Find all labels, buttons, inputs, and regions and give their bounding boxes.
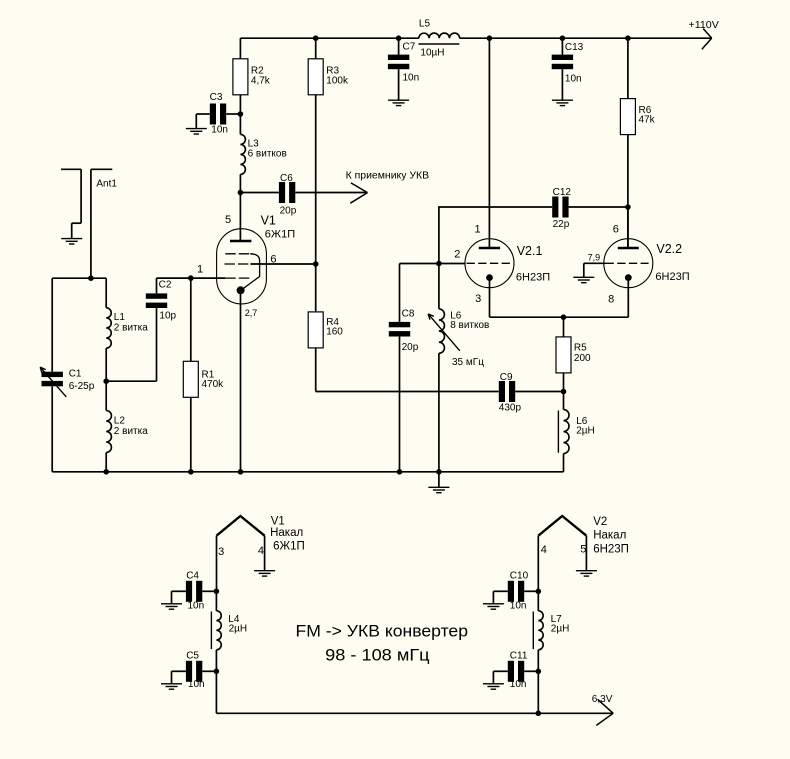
- wire C5 to heater bus: [215, 671, 217, 713]
- junction bus/R1: [188, 469, 194, 475]
- ground (heater V2): [576, 571, 597, 576]
- ground (C5): [161, 684, 182, 689]
- wire tank top: [52, 277, 106, 279]
- svg-text:К приемнику УКВ: К приемнику УКВ: [346, 171, 430, 182]
- svg-text:C9: C9: [500, 372, 513, 383]
- junction V2.1 anode/rail: [487, 35, 493, 41]
- resistor R1: [183, 278, 224, 472]
- node V2.2 grid ground (pins 7,9): [573, 252, 605, 282]
- wire antenna to tank: [90, 169, 92, 278]
- svg-text:10n: 10n: [188, 679, 205, 690]
- svg-text:6 витков: 6 витков: [248, 148, 287, 159]
- capacitor C1 (variable): [40, 278, 95, 472]
- svg-text:200: 200: [574, 353, 591, 364]
- svg-text:2,7: 2,7: [245, 308, 258, 318]
- svg-text:Накал: Накал: [593, 530, 626, 542]
- junction C6 tap: [238, 190, 244, 196]
- svg-text:L5: L5: [419, 18, 431, 29]
- heater V1 filament: [217, 516, 305, 558]
- wire V1 cathode to ground bus: [240, 290, 242, 472]
- svg-text:10n: 10n: [565, 74, 582, 85]
- svg-text:R5: R5: [574, 342, 587, 353]
- wire tap to C2: [106, 380, 156, 382]
- junction C11: [536, 669, 542, 675]
- inductor L3: [240, 134, 286, 174]
- junction bus/L2: [103, 469, 109, 475]
- junction antenna/tank top: [88, 275, 94, 281]
- svg-text:2: 2: [454, 249, 460, 261]
- resistor R3: [308, 38, 349, 264]
- capacitor C3: [196, 92, 240, 135]
- svg-text:1: 1: [197, 264, 203, 276]
- svg-text:C10: C10: [510, 570, 529, 581]
- junction C12/R6: [625, 204, 631, 210]
- svg-text:V1: V1: [261, 214, 276, 228]
- wire heater bus 6,3V: [216, 712, 613, 714]
- junction C4: [214, 589, 220, 595]
- svg-text:7,9: 7,9: [588, 252, 601, 262]
- wire heater V2 pin5 to ground: [585, 536, 587, 571]
- svg-text:4: 4: [258, 545, 264, 557]
- wire R4 to C9: [316, 391, 499, 393]
- inductor L1: [106, 278, 148, 348]
- junction C5: [214, 669, 220, 675]
- svg-text:6,3V: 6,3V: [592, 694, 613, 705]
- capacitor C2: [146, 278, 177, 381]
- inductor L6 2µH: [558, 392, 594, 472]
- capacitor C4: [172, 571, 217, 612]
- junction bus/C8: [397, 469, 403, 475]
- capacitor C13: [552, 38, 584, 100]
- wire L1 to L2: [105, 348, 107, 410]
- ground (C10): [483, 604, 504, 609]
- junction R5 top: [561, 314, 567, 320]
- junction C7/rail: [396, 35, 402, 41]
- svg-text:6: 6: [613, 223, 619, 235]
- svg-text:6-25p: 6-25p: [69, 381, 95, 392]
- capacitor C12: [552, 187, 628, 230]
- junction heater bus/V2: [536, 711, 542, 717]
- svg-text:V2.2: V2.2: [656, 242, 682, 256]
- svg-text:5: 5: [580, 543, 586, 555]
- wire R2 to C3 node: [239, 95, 241, 135]
- tube V2.2 6Н23П: [604, 207, 690, 317]
- wire V2.1 cathode down: [489, 278, 491, 318]
- svg-text:6Ж1П: 6Ж1П: [265, 228, 295, 240]
- wire V1 screen to R3/R4 node: [251, 263, 316, 265]
- junction bus/L6: [436, 469, 442, 475]
- svg-text:V2.1: V2.1: [517, 244, 543, 258]
- svg-text:3: 3: [218, 546, 224, 558]
- ground (C13): [552, 100, 573, 105]
- inductor L4: [211, 591, 247, 671]
- wire ground bus: [52, 471, 563, 473]
- node +110V supply arrow: [689, 20, 720, 49]
- svg-text:C13: C13: [565, 42, 584, 53]
- svg-text:C6: C6: [280, 173, 293, 184]
- svg-text:C4: C4: [186, 571, 199, 582]
- junction C10: [536, 589, 542, 595]
- tube V1 6Ж1П: [197, 214, 295, 318]
- svg-text:L1: L1: [114, 312, 126, 323]
- ground (C4): [161, 604, 182, 609]
- svg-text:2µH: 2µH: [229, 624, 248, 635]
- antenna Ant1: [61, 169, 117, 238]
- junction R3/rail: [313, 35, 319, 41]
- svg-text:47k: 47k: [639, 115, 656, 126]
- wire cathode row: [490, 316, 629, 318]
- wire C2 to V1 grid: [157, 277, 226, 279]
- wire heater V1 pin4 to ground: [264, 536, 266, 571]
- svg-text:1: 1: [475, 223, 481, 235]
- title text: [296, 623, 469, 665]
- svg-text:8: 8: [608, 294, 614, 306]
- resistor R4: [308, 264, 343, 392]
- capacitor C8: [389, 264, 419, 472]
- svg-text:6Н23П: 6Н23П: [593, 543, 629, 555]
- wire +110V rail (left segment): [240, 37, 419, 39]
- svg-text:C12: C12: [553, 187, 572, 198]
- svg-text:C11: C11: [510, 651, 528, 662]
- svg-text:10n: 10n: [510, 601, 527, 612]
- wire C8 to V2.1 grid: [400, 263, 466, 265]
- svg-text:5: 5: [225, 214, 231, 226]
- resistor R5: [556, 317, 591, 391]
- inductor L5: [419, 18, 460, 58]
- junction R3/R4/screen: [313, 261, 319, 267]
- svg-text:10µH: 10µH: [420, 47, 444, 58]
- capacitor C7: [388, 38, 419, 100]
- wire L3 to V1 anode: [239, 174, 241, 241]
- svg-text:20p: 20p: [402, 342, 419, 353]
- junction C9/R5/L6: [561, 389, 567, 395]
- svg-text:10n: 10n: [403, 73, 420, 84]
- svg-text:2µH: 2µH: [551, 624, 570, 635]
- svg-text:3: 3: [475, 293, 481, 305]
- inductor L6 8 витков: [428, 264, 489, 472]
- ground (C11): [483, 684, 504, 689]
- svg-text:V2: V2: [593, 516, 607, 528]
- svg-text:160: 160: [326, 327, 343, 338]
- junction L1/L2 tap: [103, 378, 109, 384]
- svg-text:6Н23П: 6Н23П: [655, 271, 689, 283]
- svg-text:C7: C7: [403, 41, 416, 52]
- junction bus/V1 cathode: [238, 469, 244, 475]
- svg-text:10p: 10p: [159, 310, 176, 321]
- svg-text:C1: C1: [69, 368, 82, 379]
- svg-text:+110V: +110V: [689, 20, 720, 31]
- capacitor C6: [240, 173, 296, 217]
- ground (bus): [428, 472, 449, 493]
- junction grid/R1/C2: [188, 275, 194, 281]
- wire grid node to C12: [439, 207, 552, 264]
- svg-text:C5: C5: [186, 651, 199, 662]
- wire C11 to heater bus: [537, 671, 539, 713]
- wire +110V rail (right segment): [460, 37, 712, 39]
- node output arrow К приемнику УКВ: [295, 171, 429, 204]
- svg-text:C2: C2: [159, 280, 172, 291]
- svg-text:10n: 10n: [510, 679, 527, 690]
- inductor L2: [106, 411, 148, 472]
- wire heater V2 pin4 down: [537, 536, 539, 592]
- capacitor C11: [493, 651, 538, 691]
- ground (antenna): [61, 239, 82, 244]
- inductor L7: [533, 591, 569, 671]
- svg-text:6Н23П: 6Н23П: [516, 271, 550, 283]
- svg-text:C8: C8: [402, 309, 415, 320]
- tube V2.1 6Н23П: [454, 38, 550, 305]
- svg-text:430p: 430p: [499, 403, 522, 414]
- svg-text:10n: 10n: [188, 601, 205, 612]
- svg-text:100k: 100k: [326, 75, 349, 86]
- ground (C7): [388, 100, 409, 105]
- junction R6/rail: [625, 35, 631, 41]
- wire heater V1 pin3 down: [216, 536, 218, 592]
- svg-text:2 витка: 2 витка: [114, 322, 148, 333]
- resistor R6: [620, 38, 655, 248]
- ground (heater V1): [254, 571, 275, 576]
- svg-text:4,7k: 4,7k: [251, 75, 271, 86]
- junction L6 top: [436, 261, 442, 267]
- junction C3/R2/L3: [238, 111, 244, 117]
- svg-text:Накал: Накал: [270, 527, 303, 539]
- svg-text:98 - 108 мГц: 98 - 108 мГц: [325, 647, 430, 665]
- svg-text:6: 6: [270, 254, 276, 266]
- ground (C3): [186, 129, 207, 134]
- svg-text:22p: 22p: [553, 219, 570, 230]
- capacitor C9: [499, 372, 564, 414]
- resistor R2: [233, 38, 271, 95]
- svg-text:4: 4: [541, 544, 547, 556]
- capacitor C5: [172, 651, 217, 691]
- svg-text:V1: V1: [271, 516, 285, 528]
- junction C13/rail: [560, 35, 566, 41]
- svg-text:Ant1: Ant1: [96, 178, 117, 189]
- svg-text:8 витков: 8 витков: [450, 320, 489, 331]
- svg-text:10n: 10n: [211, 124, 228, 135]
- capacitor C10: [493, 570, 538, 611]
- heater V2 filament: [538, 516, 629, 556]
- svg-text:2µH: 2µH: [576, 426, 595, 437]
- svg-text:35 мГц: 35 мГц: [452, 357, 484, 368]
- svg-text:20p: 20p: [280, 206, 297, 217]
- svg-text:470k: 470k: [202, 379, 225, 390]
- svg-text:2 витка: 2 витка: [114, 426, 148, 437]
- node 6,3V supply arrow: [592, 694, 613, 725]
- svg-text:FM -> УКВ конвертер: FM -> УКВ конвертер: [296, 623, 469, 641]
- svg-text:C3: C3: [210, 92, 223, 103]
- svg-text:6Ж1П: 6Ж1П: [273, 541, 305, 553]
